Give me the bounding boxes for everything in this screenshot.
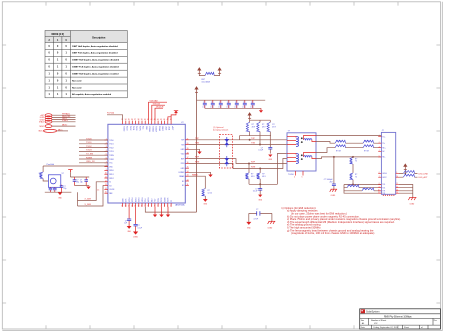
- svg-text:11: 11: [187, 184, 189, 186]
- svg-text:10: 10: [141, 205, 143, 207]
- svg-text:RXER: RXER: [147, 197, 149, 202]
- svg-text:TXEN: TXEN: [109, 155, 114, 157]
- ground pin15: [189, 172, 213, 177]
- svg-text:38: 38: [138, 119, 140, 121]
- ground pin19: [189, 149, 202, 154]
- wire RX CT riser: [277, 154, 287, 185]
- ground shield cap left: [246, 222, 251, 230]
- svg-text:R? 0R: R? 0R: [364, 141, 370, 143]
- ic U1 right pin numbers: [187, 138, 189, 186]
- svg-text:13: 13: [131, 205, 133, 207]
- box optional damping: [219, 135, 232, 168]
- resistor RS5 strap: [39, 125, 52, 128]
- ic U1 part name: [175, 204, 185, 207]
- svg-text:TXD0: TXD0: [109, 140, 113, 142]
- svg-text:RBIAS: RBIAS: [192, 173, 198, 176]
- svg-text:RXD2: RXD2: [109, 178, 114, 180]
- connector J1 pin names: [382, 136, 387, 195]
- power flag xtal: [68, 170, 72, 173]
- svg-text:RBIAS: RBIAS: [158, 126, 161, 132]
- wire bob smith row 2 resistor: [344, 185, 381, 188]
- svg-text:11: 11: [396, 183, 398, 185]
- capacitor C12 decoupling: [218, 100, 222, 108]
- svg-text:RXP: RXP: [251, 162, 256, 164]
- transformer T1 pins ch1: [287, 136, 316, 145]
- svg-text:TD-: TD-: [382, 143, 385, 145]
- wire TX term rail: [250, 118, 271, 120]
- svg-text:T45: T45: [382, 184, 385, 186]
- svg-text:Friday, September 07, 2018: Friday, September 07, 2018: [374, 326, 400, 329]
- wire XI staircase: [78, 182, 105, 201]
- svg-text:C?: C?: [219, 102, 221, 104]
- svg-text:0.1u: 0.1u: [226, 107, 229, 109]
- ic U1 left pin numbers: [105, 139, 107, 194]
- svg-text:0.1u: 0.1u: [242, 107, 245, 109]
- svg-text:5: 5: [157, 205, 158, 207]
- title block: [360, 309, 441, 329]
- svg-text:RMII Phy Ethernet 10Mbps: RMII Phy Ethernet 10Mbps: [384, 315, 412, 318]
- transformer T1 dots ch2: [301, 154, 303, 160]
- wire RX term bottom rail: [249, 183, 277, 185]
- svg-text:44: 44: [157, 119, 159, 121]
- wire shield cap right: [271, 213, 273, 221]
- resistor R60 49.9 RX: [246, 164, 255, 185]
- ground TX CT: [268, 155, 273, 162]
- svg-text:TXD2: TXD2: [129, 126, 131, 130]
- svg-text:MDIO: MDIO: [160, 198, 162, 203]
- svg-text:22p: 22p: [64, 188, 67, 190]
- wire net TX_EN: [79, 154, 108, 156]
- connector J1 left pins: [378, 137, 381, 194]
- svg-text:RXD0: RXD0: [109, 170, 114, 172]
- ic U1 left pin names: [109, 140, 115, 195]
- ic U1 PHY body: [108, 124, 185, 203]
- svg-text:RXD2: RXD2: [131, 198, 133, 203]
- transformer T1 pins ch2: [287, 153, 316, 162]
- transformer T1 center tap stubs: [296, 171, 304, 176]
- svg-text:CLKIN: CLKIN: [109, 189, 115, 191]
- svg-text:VDD3: VDD3: [166, 198, 168, 203]
- svg-text:damping network: damping network: [213, 129, 228, 132]
- svg-text:TXD1: TXD1: [86, 142, 92, 144]
- capacitor C16 decoupling: [250, 100, 254, 108]
- transformer T1 winding secondary ch1: [304, 139, 312, 140]
- wire XO staircase: [78, 186, 105, 207]
- wire osc out drop: [77, 192, 79, 206]
- svg-text:RXP: RXP: [195, 157, 200, 159]
- svg-text:R? 75: R? 75: [363, 188, 368, 190]
- ground bottom stub 2: [159, 207, 163, 217]
- svg-text:100BT Half duplex, Auto-negoti: 100BT Half duplex, Auto-negotiation disa…: [72, 59, 120, 62]
- svg-text:C?: C?: [256, 209, 258, 211]
- note EMI text block: [281, 206, 401, 235]
- node VDD2A riser: [152, 103, 165, 121]
- capacitor C30 1000pF 2kV: [324, 156, 336, 189]
- svg-text:RBIAS: RBIAS: [179, 175, 185, 178]
- svg-text:8: 8: [148, 205, 149, 207]
- svg-text:Description: Description: [92, 36, 106, 39]
- capacitor C50 osc: [49, 187, 53, 192]
- svg-text:20: 20: [187, 143, 189, 145]
- svg-text:All capable, Auto-negotiation: All capable, Auto-negotiation enabled: [72, 93, 112, 96]
- wire RXN: [189, 159, 287, 170]
- svg-text:XTAL2: XTAL2: [39, 121, 44, 124]
- svg-text:14: 14: [396, 192, 398, 194]
- svg-text:PwrVdd: PwrVdd: [47, 163, 55, 166]
- svg-text:16: 16: [187, 162, 189, 164]
- ground xtal: [86, 187, 90, 190]
- svg-text:VDDCR: VDDCR: [155, 126, 157, 133]
- capacitor C51 osc: [53, 187, 57, 192]
- transformer T1 winding secondary ch2: [304, 156, 312, 157]
- svg-text:Not used: Not used: [72, 80, 82, 83]
- svg-text:LED_ACT: LED_ACT: [419, 176, 429, 179]
- svg-text:35: 35: [128, 119, 130, 121]
- svg-text:Number of Sheet: Number of Sheet: [371, 319, 387, 322]
- svg-text:LAN8720A: LAN8720A: [175, 204, 185, 207]
- wire shield collector: [399, 185, 413, 198]
- wire bob smith row 1: [344, 184, 381, 186]
- svg-text:18: 18: [187, 152, 189, 154]
- wire RD+ row with resistors: [316, 145, 381, 153]
- svg-text:14: 14: [105, 188, 107, 190]
- ic U1 right pin names: [179, 140, 186, 188]
- svg-text:10: 10: [378, 189, 380, 191]
- svg-text:C?: C?: [80, 180, 82, 182]
- capacitor C53 xtal: [73, 177, 79, 186]
- svg-text:49.9: 49.9: [252, 127, 256, 129]
- svg-text:75: 75: [355, 161, 357, 163]
- chassis ground shield cap: [268, 221, 276, 229]
- resistor R50 49.9 TX: [246, 120, 255, 136]
- svg-text:39: 39: [141, 119, 143, 121]
- svg-text:(magnitude of ferrite, 100 mil: (magnitude of ferrite, 100 mil from chas…: [291, 231, 374, 235]
- svg-text:49.9: 49.9: [272, 127, 276, 129]
- svg-text:RXN: RXN: [251, 167, 256, 169]
- capacitor C21 RX CT: [253, 183, 262, 194]
- svg-text:C?: C?: [243, 102, 245, 104]
- connector J1 bottom pin marks: [383, 194, 395, 197]
- capacitor C52 osc out: [60, 185, 67, 192]
- mode configuration table: [45, 31, 127, 43]
- wire net TXD1: [79, 142, 108, 144]
- svg-text:3: 3: [164, 205, 165, 207]
- svg-text:13: 13: [396, 189, 398, 191]
- svg-text:R? 0R: R? 0R: [364, 150, 370, 152]
- ground RX CT: [258, 195, 263, 202]
- svg-text:Rev: Rev: [434, 320, 437, 322]
- svg-text:10BT Full duplex, Auto-negotia: 10BT Full duplex, Auto-negotiation disab…: [72, 52, 118, 55]
- svg-text:19: 19: [187, 148, 189, 150]
- ic U1 left pins: [104, 140, 108, 193]
- node VDDCR riser: [155, 107, 164, 121]
- oscillator X1 50MHz: [48, 175, 60, 188]
- svg-text:LEDG: LEDG: [382, 173, 387, 175]
- svg-text:R? 75: R? 75: [348, 185, 353, 187]
- svg-text:LED2: LED2: [164, 126, 166, 130]
- power port TX termination: [248, 113, 251, 119]
- resistor RS2 strap: [40, 116, 52, 119]
- svg-text:T78: T78: [382, 193, 385, 195]
- svg-text:nRST: nRST: [171, 126, 173, 130]
- svg-text:TXN: TXN: [251, 143, 256, 145]
- svg-text:46: 46: [163, 119, 165, 121]
- svg-text:49.9: 49.9: [251, 176, 255, 178]
- resistor RS4 strap: [39, 120, 52, 123]
- svg-text:X2: X2: [169, 200, 171, 202]
- svg-text:X_50M: X_50M: [85, 199, 92, 201]
- svg-text:16: 16: [121, 205, 123, 207]
- svg-text:VDD1A8: VDD1A8: [150, 100, 159, 103]
- svg-text:TXD0: TXD0: [86, 138, 92, 140]
- svg-text:VDD2A: VDD2A: [153, 103, 161, 106]
- svg-text:TX_EN: TX_EN: [86, 154, 93, 156]
- wire osc power rail: [43, 163, 108, 166]
- svg-text:15: 15: [187, 167, 189, 169]
- svg-text:LED1: LED1: [168, 126, 170, 130]
- svg-text:TXD1: TXD1: [109, 144, 113, 146]
- ic U1 top pin numbers: [121, 119, 171, 121]
- ic U1 top pins: [123, 121, 172, 125]
- svg-text:PwrVdd: PwrVdd: [107, 113, 114, 115]
- svg-text:Date:: Date:: [361, 326, 366, 329]
- wire main vdd vertical: [196, 92, 198, 212]
- ground bottom stub 1: [153, 207, 157, 217]
- connector J1 RJ45 box: [381, 132, 395, 194]
- svg-text:MDIO: MDIO: [62, 125, 68, 127]
- svg-text:RXN: RXN: [195, 162, 200, 164]
- svg-text:12.1k: 12.1k: [208, 193, 212, 195]
- title block logo: [361, 309, 365, 313]
- wire bob smith row 4: [344, 191, 381, 193]
- svg-text:34: 34: [125, 119, 127, 121]
- resistor RS1 strap: [40, 114, 52, 117]
- capacitor C13 decoupling: [226, 100, 230, 108]
- ic U1 bottom pins: [123, 203, 172, 207]
- wire RD- row: [316, 157, 381, 159]
- svg-text:0.1u: 0.1u: [250, 107, 253, 109]
- svg-text:T78: T78: [382, 191, 385, 193]
- wire bead link: [199, 73, 219, 75]
- svg-text:R? 0R: R? 0R: [336, 141, 342, 143]
- capacitor C15 decoupling: [242, 100, 246, 108]
- svg-text:4: 4: [294, 177, 295, 179]
- ic U1 bottom pin numbers: [121, 205, 171, 207]
- svg-text:(1) Optional: (1) Optional: [213, 126, 224, 129]
- capacitor C40 shield: [249, 209, 272, 220]
- wire TX term bottom rail: [239, 135, 271, 137]
- capacitor C61 below ic: [134, 207, 142, 232]
- capacitor C11 decoupling: [210, 100, 214, 108]
- wire net TXD2: [79, 146, 108, 148]
- svg-text:VDDCR: VDDCR: [156, 107, 164, 109]
- svg-text:1k: 1k: [39, 175, 41, 177]
- wire caps top rail: [197, 99, 266, 101]
- connector J1 right pins: [396, 174, 399, 194]
- svg-text:T45: T45: [382, 187, 385, 189]
- power port +3V3: [218, 68, 221, 74]
- svg-text:TXER: TXER: [109, 159, 114, 161]
- svg-text:40: 40: [144, 119, 146, 121]
- svg-text:GND2: GND2: [161, 126, 163, 131]
- svg-text:10: 10: [105, 173, 107, 175]
- svg-text:11: 11: [138, 205, 140, 207]
- ferrite bead FB1: [202, 72, 215, 83]
- ground RBIAS: [203, 199, 208, 206]
- resistor R71 75R: [350, 173, 357, 185]
- svg-text:1: 1: [170, 205, 171, 207]
- capacitor C20 TX CT: [258, 136, 272, 154]
- svg-text:Sheet: Sheet: [404, 326, 409, 329]
- svg-text:10BT Half duplex, Auto-negotia: 10BT Half duplex, Auto-negotiation disab…: [72, 45, 119, 48]
- wire TXP: [189, 138, 287, 141]
- wire nRST to pin 33: [107, 113, 123, 121]
- svg-text:C?: C?: [251, 102, 253, 104]
- transformer T1 dots ch1: [301, 137, 303, 143]
- transformer T1 winding primary ch1: [296, 137, 299, 147]
- svg-text:15: 15: [125, 205, 127, 207]
- svg-text:TXD2: TXD2: [86, 146, 92, 148]
- svg-text:100BT Half duplex, Auto-negoti: 100BT Half duplex, Auto-negotiation enab…: [72, 73, 119, 76]
- svg-text:X?: X?: [62, 173, 64, 175]
- transformer T1 box: [287, 133, 316, 171]
- chassis ground shield: [408, 198, 416, 206]
- svg-text:36: 36: [131, 119, 133, 121]
- svg-text:LED_LINK: LED_LINK: [419, 173, 429, 175]
- ground C61: [133, 232, 139, 239]
- svg-text:17: 17: [187, 157, 189, 159]
- wire xtal top: [70, 172, 89, 177]
- svg-text:75: 75: [355, 176, 357, 178]
- wire shield cap left: [248, 213, 250, 222]
- wire caps bottom rail: [205, 107, 261, 109]
- svg-text:11: 11: [105, 177, 107, 179]
- svg-text:11: 11: [378, 192, 380, 194]
- power port VDD caps feed: [195, 87, 198, 93]
- svg-text:RXER: RXER: [86, 157, 92, 159]
- svg-text:9: 9: [106, 169, 107, 171]
- svg-text:RD-: RD-: [382, 157, 385, 159]
- ground caps row: [259, 108, 263, 112]
- wire strap row 5: [52, 125, 76, 127]
- wire TD+ row: [316, 136, 381, 137]
- oscillator X1 designator: [62, 173, 64, 175]
- connector J1 right pin numbers: [396, 172, 398, 194]
- svg-text:0.1u: 0.1u: [210, 107, 213, 109]
- ic U1 top pin names: [122, 126, 173, 133]
- svg-text:MDIO: MDIO: [39, 126, 44, 128]
- svg-text:49.9: 49.9: [262, 176, 266, 178]
- node VDD1A8 riser: [149, 100, 168, 121]
- svg-text:GND3: GND3: [163, 197, 165, 202]
- svg-text:RXD1: RXD1: [109, 174, 114, 176]
- svg-text:RXD1: RXD1: [134, 198, 136, 203]
- transformer T1 designator: [288, 131, 294, 177]
- svg-text:18p: 18p: [80, 182, 83, 184]
- svg-text:RXD0: RXD0: [137, 198, 139, 203]
- wire net TXD3: [79, 150, 108, 152]
- resistor R70 75R: [350, 156, 357, 173]
- svg-text:MDC: MDC: [39, 131, 44, 133]
- connector J1 designator: [382, 130, 385, 132]
- svg-text:7: 7: [151, 205, 152, 207]
- svg-text:TXP: TXP: [251, 138, 256, 140]
- svg-text:C?: C?: [211, 102, 213, 104]
- svg-text:C?: C?: [203, 102, 205, 104]
- svg-text:TXD1: TXD1: [132, 126, 134, 130]
- svg-text:15: 15: [105, 192, 107, 194]
- svg-text:C?: C?: [76, 180, 78, 182]
- svg-text:100BT Full duplex, Auto-negoti: 100BT Full duplex, Auto-negotiation disa…: [72, 66, 119, 69]
- resistor R61 49.9 RX: [257, 169, 266, 185]
- ic U1 bottom pin names: [121, 197, 171, 203]
- svg-text:12: 12: [396, 186, 398, 188]
- svg-text:COL: COL: [153, 199, 155, 203]
- svg-text:37: 37: [134, 119, 136, 121]
- wire TD- row with resistors: [316, 140, 381, 143]
- diode D2 damping RX: [225, 156, 228, 166]
- wire bottom vdd return: [145, 207, 196, 212]
- svg-text:0.1u: 0.1u: [202, 107, 205, 109]
- svg-text:R? 0R: R? 0R: [336, 150, 342, 152]
- capacitor C60 below ic: [124, 207, 131, 226]
- svg-text:5: 5: [302, 177, 303, 179]
- svg-text:MODE [2:0]: MODE [2:0]: [52, 34, 65, 36]
- svg-text:C?: C?: [235, 102, 237, 104]
- wire osc bottom rail: [45, 191, 72, 193]
- wire bob smith row 3 resistor: [344, 188, 381, 191]
- svg-text:REF: REF: [109, 193, 112, 195]
- svg-text:18p: 18p: [76, 182, 79, 184]
- svg-text:V02: V02: [374, 323, 377, 325]
- wire net RXER: [79, 157, 108, 159]
- svg-text:12: 12: [105, 180, 107, 182]
- resistor R81 LED: [399, 174, 428, 179]
- power flag nRST pullup: [168, 111, 178, 121]
- svg-text:21: 21: [187, 138, 189, 140]
- svg-text:TD+: TD+: [382, 136, 385, 138]
- resistor R12 RBIAS 12.1k: [189, 173, 212, 199]
- power port LED supply: [404, 164, 407, 170]
- title block texts: [361, 311, 437, 330]
- svg-text:TXEN: TXEN: [138, 126, 140, 131]
- diode D1 damping TX: [225, 137, 228, 147]
- svg-text:TXD3: TXD3: [109, 151, 113, 153]
- svg-text:10: 10: [396, 176, 398, 178]
- svg-text:1uF: 1uF: [124, 223, 127, 225]
- ground bottom stub 3: [166, 207, 170, 217]
- note optional damping label: [213, 126, 228, 132]
- svg-text:0.1uF: 0.1uF: [138, 227, 142, 229]
- svg-text:X_50M: X_50M: [85, 204, 92, 206]
- svg-text:RD+: RD+: [382, 147, 385, 149]
- svg-text:12: 12: [187, 180, 189, 182]
- capacitor C10 decoupling: [202, 100, 206, 108]
- wire TXN: [189, 143, 287, 146]
- svg-text:13: 13: [105, 184, 107, 186]
- chassis ground C30: [330, 189, 337, 197]
- ic U1 right pins: [185, 140, 189, 186]
- svg-text:TXP: TXP: [195, 138, 200, 140]
- svg-text:TXD0: TXD0: [135, 126, 137, 130]
- svg-text:TXD3: TXD3: [86, 150, 92, 152]
- resistor RS6 strap: [39, 129, 57, 132]
- svg-text:14: 14: [187, 171, 189, 173]
- wire TX center tap drop: [239, 136, 260, 145]
- power port +3V3A: [198, 68, 201, 74]
- svg-text:RXD3: RXD3: [127, 198, 129, 203]
- svg-text:MDC: MDC: [58, 129, 63, 131]
